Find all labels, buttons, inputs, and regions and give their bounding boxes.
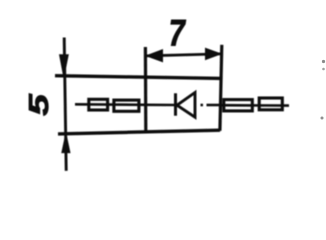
body outline: right edge (extends up as extension line for dimension 7) xyxy=(220,45,222,131)
diode D1: triangle (anode, pointing left) xyxy=(177,93,195,118)
speck artifact at right edge 2 xyxy=(322,68,325,71)
dimension 5: lower arrowhead pointing up xyxy=(62,134,70,153)
lead wire break rectangle right 1 xyxy=(224,100,253,111)
wire: lead center line left xyxy=(75,103,176,106)
dimension 5: upper arrowhead pointing down xyxy=(60,55,68,77)
diode D1: cathode bar xyxy=(174,93,177,115)
speck artifact at right edge 1 xyxy=(322,60,325,63)
lead wire break rectangle left 2 xyxy=(114,100,139,111)
wire: lead center line right (solid through leads) xyxy=(221,104,289,107)
speck artifact at right edge 3 xyxy=(321,117,324,120)
lead wire break rectangle left 1 xyxy=(89,99,108,110)
lead wire break rectangle right 2 xyxy=(259,98,282,110)
svg-text:7: 7 xyxy=(169,13,186,54)
dimension 7: right arrowhead pointing right xyxy=(206,48,221,59)
body outline: left edge (extends up as extension line for dimension 7) xyxy=(144,47,148,132)
wire: dash-dot axis dot right of diode xyxy=(201,104,204,107)
wire: dash-dot axis dash right of diode xyxy=(207,104,221,107)
body outline: bottom edge (also extension line for dimension 5) xyxy=(58,130,220,134)
body outline: top edge (also extension line for dimension 5) xyxy=(55,76,222,79)
dimension 7: left arrowhead pointing left xyxy=(146,50,162,62)
dimension 7: horizontal dimension line xyxy=(146,54,221,56)
dimension 5: vertical dimension line xyxy=(64,38,66,171)
svg-text:5: 5 xyxy=(24,93,55,116)
